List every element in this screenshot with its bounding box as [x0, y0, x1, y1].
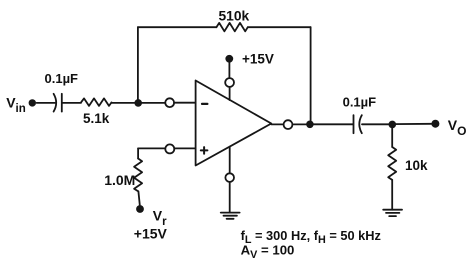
- svg-text:AV = 100: AV = 100: [241, 243, 295, 261]
- capacitor C1 curved plate: [54, 94, 57, 112]
- label Vin: [6, 95, 26, 116]
- resistor R3 zigzag 1.0M vertical: [134, 159, 142, 192]
- capacitor C2 curved plate: [359, 115, 362, 133]
- caption gain line: [241, 243, 295, 261]
- wire feedback top left segment: [138, 26, 217, 28]
- resistor R2 zigzag 510k: [216, 23, 247, 31]
- wire corner down to R3: [137, 148, 139, 158]
- svg-text:0.1µF: 0.1µF: [45, 71, 79, 86]
- label Vo: [448, 117, 467, 138]
- svg-text:10k: 10k: [405, 158, 428, 173]
- wire Vin dot to C1: [37, 102, 56, 104]
- label R2 value 510k: [219, 8, 250, 23]
- svg-text:+15V: +15V: [242, 52, 274, 67]
- wire pin to ground: [229, 182, 231, 213]
- wire feedback left vertical: [137, 27, 139, 103]
- wire C2 to node C: [362, 123, 392, 125]
- wire R4 to ground: [391, 180, 393, 210]
- svg-text:5.1k: 5.1k: [83, 111, 110, 126]
- wire pin stub to triangle top edge: [229, 87, 231, 100]
- pin terminal circle output: [284, 120, 293, 129]
- ground symbol below R4: [383, 210, 402, 216]
- supply +15V terminal dot: [225, 55, 233, 63]
- node B junction dot: [306, 121, 314, 129]
- op-amp plus sign: [201, 147, 208, 154]
- label +15V bottom: [134, 225, 168, 241]
- pin terminal circle V-: [225, 173, 234, 182]
- wire node C to Vo dot: [392, 123, 431, 125]
- wire feedback right vertical: [310, 27, 312, 124]
- wire terminal to op-amp minus input: [174, 102, 195, 104]
- wire feedback top right segment: [248, 26, 311, 28]
- wire C1 to R1: [63, 102, 82, 104]
- wire noninverting input horizontal left: [138, 147, 165, 149]
- wire R3 to Vr dot: [138, 191, 139, 205]
- pin terminal circle noninverting input: [165, 144, 174, 153]
- ground symbol below op-amp: [221, 213, 240, 219]
- wire terminal to op-amp plus input: [174, 147, 195, 149]
- label R1 value 5.1k: [83, 111, 110, 126]
- wire pin circle to node B: [292, 123, 306, 125]
- caption frequency line: [241, 228, 381, 246]
- op-amp minus sign: [202, 103, 207, 105]
- wire supply dot to pin circle: [228, 62, 230, 78]
- op-amp U1 triangle: [196, 81, 272, 166]
- label +15V top: [242, 52, 274, 67]
- svg-text:Vin: Vin: [6, 95, 26, 116]
- svg-text:+15V: +15V: [134, 225, 168, 241]
- node Vin terminal dot: [29, 99, 36, 106]
- node Vo terminal dot: [431, 120, 439, 128]
- pin terminal circle V+: [225, 78, 234, 87]
- svg-text:510k: 510k: [219, 8, 250, 23]
- resistor R1 zigzag: [81, 98, 112, 106]
- label Vr: [153, 208, 167, 228]
- label R3 value 1.0M: [104, 172, 135, 188]
- capacitor C2 straight plate: [353, 115, 355, 133]
- node Vr terminal dot: [136, 205, 144, 213]
- capacitor C1 straight plate: [61, 94, 63, 112]
- resistor R4 zigzag 10k vertical: [388, 147, 396, 180]
- wire R1 to node A: [112, 102, 166, 104]
- wire pin stub from triangle bottom edge: [229, 147, 231, 174]
- wire node C down to R4: [391, 124, 393, 147]
- node C junction dot: [389, 121, 397, 129]
- svg-text:VO: VO: [448, 117, 467, 138]
- label C1 value 0.1uF: [45, 71, 79, 86]
- svg-text:1.0M: 1.0M: [104, 172, 135, 188]
- node A junction dot: [134, 99, 142, 107]
- wire node B to C2: [310, 123, 353, 125]
- pin terminal circle inverting input: [165, 98, 174, 107]
- svg-text:0.1µF: 0.1µF: [343, 95, 377, 110]
- label C2 value 0.1uF: [343, 95, 377, 110]
- wire op-amp output to pin circle: [271, 123, 283, 125]
- label R4 value 10k: [405, 158, 428, 173]
